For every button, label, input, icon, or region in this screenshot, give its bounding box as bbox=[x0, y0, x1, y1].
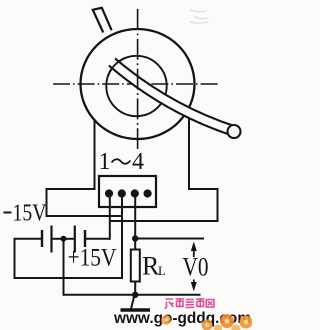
svg-text:4: 4 bbox=[132, 149, 144, 175]
svg-text:L: L bbox=[158, 263, 166, 278]
svg-text:V0: V0 bbox=[183, 253, 209, 282]
svg-text:+15V: +15V bbox=[68, 245, 117, 272]
svg-text:15V: 15V bbox=[13, 201, 48, 227]
svg-text:1: 1 bbox=[99, 149, 111, 175]
